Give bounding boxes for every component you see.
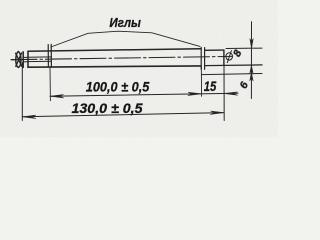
needle shank inside bore (left) — [28, 56, 52, 58]
line over 15 box — [202, 74, 263, 75]
needle tip (left) — [12, 52, 29, 68]
dim 100 arrow right / dim 15 outside arrow left — [188, 92, 202, 95]
dim 130 extension left — [21, 63, 23, 121]
dim 15 extension below joint — [200, 66, 202, 96]
svg-text:Иглы: Иглы — [109, 16, 141, 30]
dim 130 arrow right — [211, 111, 225, 114]
centerline — [11, 56, 232, 59]
dim 8 arrow down (tip at top ext) — [250, 39, 253, 49]
svg-text:130,0 ± 0,5: 130,0 ± 0,5 — [72, 100, 143, 116]
diameter symbol for 8 — [226, 51, 233, 63]
rod body top edge — [28, 49, 201, 51]
dim 100/15 dimension line — [50, 93, 238, 96]
dim 100 arrow left — [50, 95, 64, 98]
dim 6 arrow up (tip at lower ext) — [250, 73, 253, 81]
dim 8 arrow up (tip at bottom ext) — [250, 65, 253, 73]
svg-text:100,0 ± 0,5: 100,0 ± 0,5 — [86, 78, 150, 94]
dim 130 dimension line — [22, 113, 224, 117]
rod left end face — [27, 51, 29, 67]
svg-text:15: 15 — [204, 78, 217, 94]
dim 15 outside arrow right — [224, 92, 238, 95]
leader line to label — [51, 31, 200, 47]
tail section (d6) — [205, 49, 224, 51]
dim 130 arrow left — [22, 115, 36, 118]
dim 8/6 vertical dimension line — [250, 22, 252, 99]
dim 8 extension top — [226, 47, 262, 49]
dim 100 extension line (left) — [49, 67, 51, 101]
left press-fit joint — [47, 45, 49, 68]
rod body bottom edge — [28, 66, 201, 67]
dim 130 extension right (rod end) — [223, 65, 225, 120]
right press-fit joint — [200, 47, 202, 69]
